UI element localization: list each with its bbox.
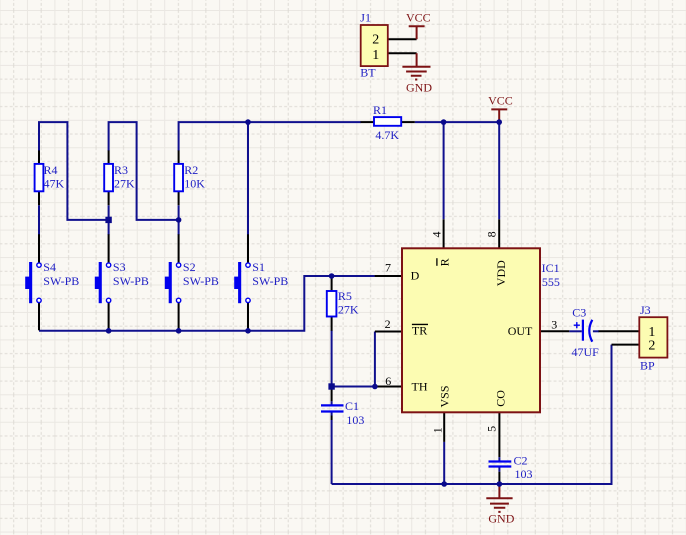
wire drop from top bus to pin 4 (443, 122, 445, 219)
pin S2 bottom (178, 303, 180, 331)
pin 8 of IC1 (498, 219, 500, 248)
wire TR pin down to TH node (374, 332, 376, 387)
svg-text:S1: S1 (252, 260, 265, 274)
svg-text:BP: BP (640, 359, 655, 373)
wire drop from top bus to S1 (247, 122, 249, 235)
svg-text:R1: R1 (373, 103, 387, 117)
pin R4 bottom to S4 (38, 191, 40, 263)
wire R2 lower node to S2 (178, 205, 180, 235)
connector J3 body (639, 317, 667, 357)
pin 4 of IC1 (443, 219, 445, 248)
pin 1 of J1 (388, 52, 417, 54)
wire R4 bottom to S4 top (38, 205, 40, 235)
pin R3 top (108, 150, 110, 164)
junction R3 lower node (square) (105, 217, 111, 223)
svg-text:CO: CO (494, 390, 508, 407)
wire ground bus to J3 pin2 (332, 345, 612, 484)
resistor R5 body (327, 291, 337, 317)
svg-text:1: 1 (372, 48, 379, 63)
svg-text:27K: 27K (338, 303, 359, 317)
svg-text:5: 5 (485, 426, 499, 432)
junction top bus / pin4 drop (441, 119, 447, 125)
junction VCC node (496, 119, 502, 125)
junction ground bus / GND (497, 481, 503, 487)
wire CO pin to C2 (498, 457, 500, 472)
svg-text:1: 1 (430, 427, 444, 433)
wire C1 bottom to ground bus (331, 401, 333, 484)
resistor R3 body (104, 164, 113, 191)
svg-text:BT: BT (360, 66, 376, 80)
wire bridge from R3 top over to R2 lower node (109, 122, 179, 220)
pin R4 top (38, 150, 40, 164)
svg-text:OUT: OUT (508, 324, 533, 338)
svg-text:SW-PB: SW-PB (113, 274, 149, 288)
svg-text:J3: J3 (640, 303, 651, 317)
pin 2 TR of IC1 (375, 331, 402, 333)
wire VSS to ground bus (443, 442, 445, 484)
svg-text:3: 3 (551, 317, 557, 331)
wire top bus from R2 top to R1 left (179, 122, 361, 151)
svg-text:R3: R3 (114, 163, 128, 177)
pin C2 bottom (498, 472, 500, 483)
pin R1 left (361, 121, 375, 123)
svg-text:10K: 10K (184, 176, 205, 190)
switch S2 (165, 262, 181, 303)
switch S4 (25, 262, 41, 303)
svg-text:2: 2 (372, 33, 379, 48)
op-amp U1 : IC1 555 body (402, 248, 540, 412)
pin 2 of J3 (612, 344, 640, 346)
resistor R2 body (174, 164, 183, 191)
svg-text:4: 4 (430, 232, 444, 238)
svg-text:C1: C1 (345, 399, 359, 413)
svg-text:6: 6 (385, 374, 391, 388)
svg-text:R4: R4 (44, 163, 58, 177)
pin C1 bottom (331, 416, 333, 421)
resistor R1 body (374, 117, 401, 126)
pin 6 TH of IC1 (375, 386, 402, 388)
pin C1 top (331, 387, 333, 402)
junction bottom bus S3 (106, 328, 112, 334)
pin R3 bottom to S3 (108, 191, 110, 263)
svg-text:GND: GND (406, 80, 432, 94)
svg-text:555: 555 (542, 275, 560, 289)
pin R2 bottom to S2 (178, 191, 180, 263)
svg-text:VCC: VCC (488, 94, 513, 108)
junction ground bus / VSS (441, 481, 447, 487)
junction TH node (square) (328, 383, 334, 389)
pin 1 VSS of IC1 (443, 412, 445, 442)
svg-text:47UF: 47UF (572, 345, 600, 359)
svg-text:2: 2 (648, 339, 655, 354)
pin S1 top (247, 234, 249, 263)
pin S1 bottom (247, 303, 249, 331)
svg-text:VSS: VSS (437, 385, 451, 407)
pin S4 bottom (38, 303, 40, 331)
junction bottom bus S2 (176, 328, 182, 334)
pin S3 bottom (108, 303, 110, 331)
svg-text:R: R (437, 258, 451, 266)
wire C3 to J3 pin1 (593, 330, 599, 332)
wire R5 bottom to TH node (331, 330, 333, 386)
svg-text:S2: S2 (183, 260, 196, 274)
power symbol VCC at J1 (409, 26, 425, 39)
pin 3 OUT of IC1 (540, 330, 569, 332)
pin R1 right (401, 121, 415, 123)
connector J1 body (361, 25, 388, 66)
svg-text:GND: GND (488, 511, 514, 525)
svg-text:TR: TR (412, 324, 427, 338)
svg-text:J1: J1 (360, 10, 371, 24)
svg-text:VDD: VDD (494, 260, 508, 286)
svg-text:D: D (411, 269, 420, 283)
junction top bus / S1 drop (245, 119, 251, 125)
wire bottom switch bus up to D node (39, 276, 375, 331)
svg-text:R2: R2 (184, 163, 198, 177)
switch S1 (234, 262, 250, 303)
ground symbol GND at J1 (402, 53, 430, 79)
switch S3 (95, 262, 111, 303)
svg-text:103: 103 (346, 413, 364, 427)
power symbol VCC at top bus (491, 109, 507, 122)
wire bridge from R4 top over to R3 lower node (39, 122, 109, 220)
svg-text:SW-PB: SW-PB (183, 274, 219, 288)
svg-text:7: 7 (385, 261, 391, 275)
wire drop from VCC node to pin 8 (498, 122, 500, 219)
svg-text:VCC: VCC (406, 10, 431, 24)
wire OUT to C3 (569, 330, 582, 332)
svg-text:2: 2 (385, 317, 391, 331)
svg-text:103: 103 (515, 467, 533, 481)
junction bottom bus S1 (245, 328, 251, 334)
svg-text:C2: C2 (514, 453, 528, 467)
pin 7 D of IC1 (375, 275, 402, 277)
capacitor C3 polarized plates and plus (574, 320, 593, 342)
wire R1 right to VCC node (415, 121, 499, 123)
svg-text:47K: 47K (44, 176, 65, 190)
resistor R4 body (35, 164, 44, 191)
svg-text:S4: S4 (43, 260, 56, 274)
junction D node / R5 top (329, 273, 335, 279)
pin 2 of J1 (388, 38, 417, 40)
pin 5 CO of IC1 (498, 412, 500, 457)
svg-text:SW-PB: SW-PB (43, 274, 79, 288)
pin 1 of J3 (599, 330, 640, 332)
ground symbol GND at bottom (486, 483, 512, 512)
pin R5 top (331, 276, 333, 291)
pin R2 top (178, 150, 180, 164)
svg-text:4.7K: 4.7K (375, 128, 399, 142)
svg-text:8: 8 (484, 231, 498, 237)
capacitor C1 plates (321, 405, 344, 411)
svg-text:TH: TH (412, 379, 428, 393)
junction TR/TH node (372, 384, 378, 390)
wire R3 lower node to S3 (108, 205, 110, 235)
svg-text:R5: R5 (338, 289, 352, 303)
svg-text:SW-PB: SW-PB (252, 274, 288, 288)
junction R2 lower node (176, 217, 182, 223)
capacitor C2 plates (489, 462, 512, 467)
pin R5 bottom (331, 317, 333, 331)
wire TH node horizontal (332, 386, 375, 388)
svg-text:IC1: IC1 (542, 261, 560, 275)
svg-text:C3: C3 (572, 305, 586, 319)
svg-text:27K: 27K (114, 176, 135, 190)
svg-text:S3: S3 (113, 260, 126, 274)
